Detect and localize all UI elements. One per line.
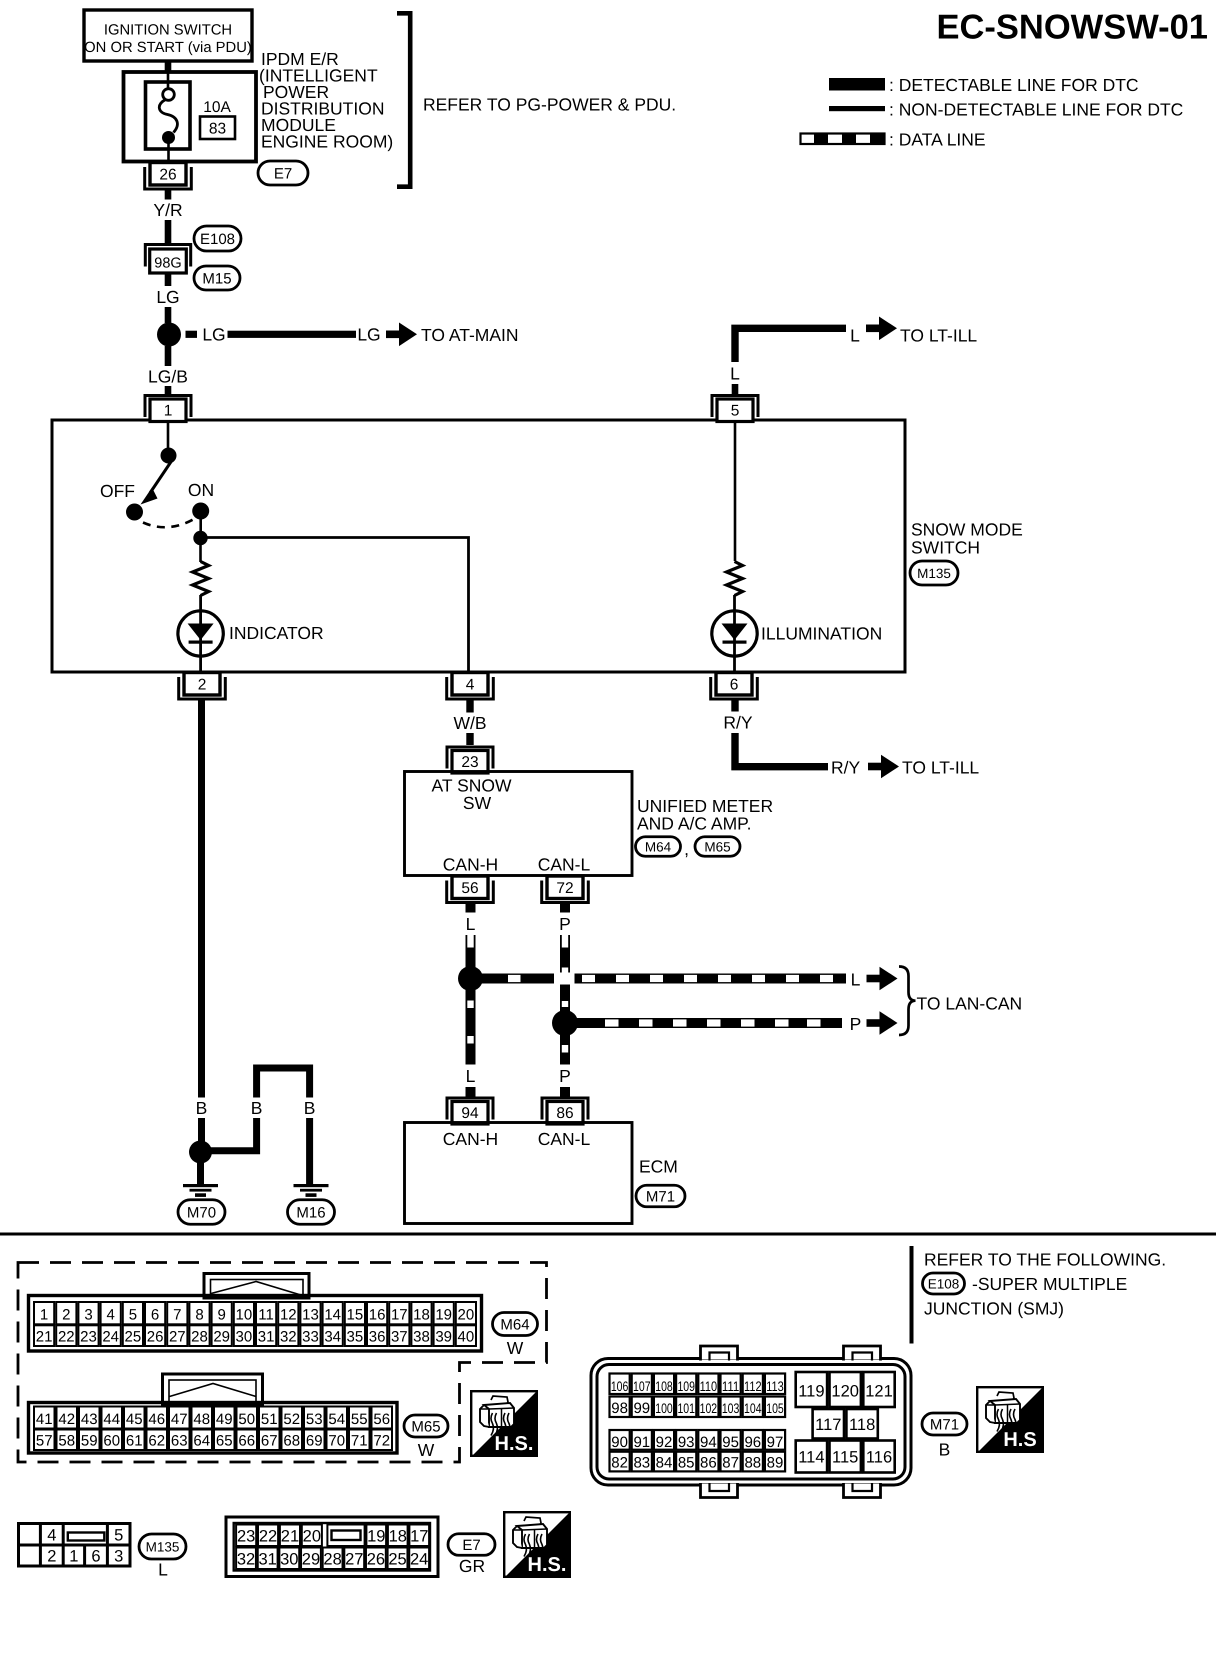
arrow L lan <box>867 967 898 991</box>
svg-text:ON OR START (via PDU): ON OR START (via PDU) <box>84 40 252 56</box>
svg-text:4: 4 <box>466 677 475 694</box>
arrow to LT-ILL bottom <box>868 755 899 779</box>
svg-text:41: 41 <box>36 1411 53 1428</box>
svg-text:21: 21 <box>36 1329 53 1346</box>
hs icon M64 M65 <box>471 1391 537 1456</box>
svg-text:98: 98 <box>611 1400 628 1417</box>
hs icon E7 <box>504 1512 570 1577</box>
junction dot B <box>189 1141 212 1164</box>
svg-text:38: 38 <box>413 1329 430 1346</box>
label AT SNOW SW <box>431 776 512 814</box>
connector pin 94 <box>447 1098 493 1124</box>
ground M16 <box>294 1184 329 1197</box>
svg-text:23: 23 <box>237 1528 255 1546</box>
svg-text:L: L <box>466 1066 476 1086</box>
svg-text:24: 24 <box>410 1551 428 1569</box>
svg-text:10A: 10A <box>203 99 231 116</box>
svg-text:R/Y: R/Y <box>723 713 753 733</box>
wire stub 56 <box>466 903 476 913</box>
svg-text:91: 91 <box>633 1434 650 1451</box>
svg-text:H.S: H.S <box>1003 1429 1036 1451</box>
svg-text:56: 56 <box>373 1411 390 1428</box>
svg-text:35: 35 <box>347 1329 364 1346</box>
svg-text:40: 40 <box>458 1329 475 1346</box>
svg-text:L: L <box>730 363 740 383</box>
svg-text:66: 66 <box>238 1433 255 1450</box>
svg-text:30: 30 <box>280 1551 298 1569</box>
svg-text:45: 45 <box>126 1411 143 1428</box>
oval E7 view <box>448 1534 495 1556</box>
svg-text:85: 85 <box>678 1455 695 1472</box>
oval M71 view <box>922 1413 967 1435</box>
connector view M71 grid right <box>796 1372 895 1473</box>
svg-text:11: 11 <box>258 1307 274 1324</box>
svg-text:83: 83 <box>633 1455 650 1472</box>
svg-text:Y/R: Y/R <box>153 200 182 220</box>
svg-text:36: 36 <box>369 1329 386 1346</box>
wire R/Y corner <box>735 733 828 767</box>
oval E108 <box>194 226 241 251</box>
svg-text:16: 16 <box>369 1307 386 1324</box>
svg-text:42: 42 <box>58 1411 75 1428</box>
svg-text:CAN-L: CAN-L <box>538 855 591 875</box>
svg-text:B: B <box>196 1098 208 1118</box>
svg-text:29: 29 <box>302 1551 320 1569</box>
data line CAN-L upper <box>560 935 570 1011</box>
svg-text:46: 46 <box>148 1411 165 1428</box>
svg-text:72: 72 <box>373 1433 390 1450</box>
svg-text:B: B <box>304 1098 316 1118</box>
svg-text:118: 118 <box>849 1416 875 1434</box>
legend detectable line sample <box>829 78 885 91</box>
svg-text:L: L <box>158 1560 168 1580</box>
connector pin 4 <box>447 673 494 700</box>
switch blade <box>141 461 172 505</box>
svg-text:CAN-H: CAN-H <box>443 855 498 875</box>
svg-text:110: 110 <box>700 1379 718 1394</box>
svg-text:H.S.: H.S. <box>495 1433 534 1455</box>
junction dot P <box>552 1010 578 1036</box>
refer bar <box>910 1246 914 1344</box>
svg-text:ON: ON <box>188 480 214 500</box>
svg-text:SWITCH: SWITCH <box>911 538 980 558</box>
svg-text:44: 44 <box>103 1411 120 1428</box>
label Y/R <box>149 200 188 221</box>
svg-text:SW: SW <box>463 793 492 813</box>
svg-text:LG: LG <box>357 325 380 345</box>
wire LG/B <box>165 346 172 395</box>
svg-text:1: 1 <box>40 1307 48 1324</box>
svg-text:115: 115 <box>832 1449 858 1467</box>
svg-text:31: 31 <box>258 1551 276 1569</box>
label B loop-right <box>301 1098 318 1119</box>
wire L stub <box>732 384 739 395</box>
svg-text:P: P <box>559 914 571 934</box>
svg-text:18: 18 <box>413 1307 430 1324</box>
arrow to LT-ILL top <box>866 317 897 341</box>
svg-text:,: , <box>684 839 689 859</box>
connector view E7 <box>226 1517 438 1577</box>
svg-text:M16: M16 <box>296 1204 325 1221</box>
svg-text:55: 55 <box>351 1411 368 1428</box>
wire resistor to LED <box>199 595 202 671</box>
svg-text:CAN-L: CAN-L <box>538 1129 591 1149</box>
unified meter box <box>405 772 633 876</box>
svg-text:63: 63 <box>171 1433 188 1450</box>
connector pin 86 <box>542 1098 588 1124</box>
svg-text:108: 108 <box>655 1379 673 1394</box>
wire B branch <box>210 1118 257 1151</box>
svg-text:LG: LG <box>202 325 225 345</box>
svg-text:69: 69 <box>306 1433 323 1450</box>
svg-text:M65: M65 <box>704 839 730 854</box>
svg-text:IGNITION SWITCH: IGNITION SWITCH <box>104 23 232 39</box>
wire W/B <box>466 700 473 746</box>
wire B to M16 ground <box>306 1118 313 1185</box>
oval M64 <box>636 837 681 857</box>
svg-text:18: 18 <box>389 1528 407 1546</box>
svg-text:58: 58 <box>58 1433 75 1450</box>
svg-text:B: B <box>251 1098 263 1118</box>
svg-text:97: 97 <box>767 1434 784 1451</box>
svg-text:34: 34 <box>324 1329 341 1346</box>
svg-text:59: 59 <box>81 1433 98 1450</box>
svg-text:72: 72 <box>556 880 573 897</box>
wire stub 86 <box>560 1087 570 1098</box>
svg-text:25: 25 <box>125 1329 142 1346</box>
svg-text:43: 43 <box>81 1411 98 1428</box>
connector pin 5 <box>712 396 758 422</box>
arrow to AT-MAIN <box>386 323 417 347</box>
ignition switch box <box>84 10 252 61</box>
svg-text:104: 104 <box>744 1401 762 1416</box>
svg-text:6: 6 <box>730 677 739 694</box>
connector view M71 body <box>591 1359 911 1486</box>
label R/Y <box>719 712 758 734</box>
svg-text:24: 24 <box>102 1329 119 1346</box>
wire ON to node <box>199 511 202 533</box>
svg-text:30: 30 <box>236 1329 253 1346</box>
svg-text:6: 6 <box>91 1548 100 1566</box>
svg-text:: DATA LINE: : DATA LINE <box>889 130 986 150</box>
connector view M71 grid lower-left <box>610 1430 786 1472</box>
svg-text:M64: M64 <box>500 1316 529 1333</box>
arrow P lan <box>867 1011 898 1035</box>
svg-text:61: 61 <box>126 1433 143 1450</box>
wire stub 94 <box>466 1087 476 1098</box>
svg-text:121: 121 <box>865 1383 893 1401</box>
connector view M65 body <box>29 1403 398 1454</box>
svg-text:E7: E7 <box>274 165 292 182</box>
connector view M71 tabs <box>700 1346 881 1498</box>
svg-text:86: 86 <box>556 1105 573 1122</box>
svg-text:39: 39 <box>435 1329 452 1346</box>
dashed group box M64 M65 <box>18 1263 547 1463</box>
svg-text:117: 117 <box>815 1416 841 1434</box>
svg-text:7: 7 <box>173 1307 181 1324</box>
svg-text:22: 22 <box>58 1329 75 1346</box>
oval M135 view <box>139 1534 186 1559</box>
svg-text:P: P <box>850 1014 862 1034</box>
connector view M65 tab <box>163 1374 263 1404</box>
svg-text:92: 92 <box>656 1434 673 1451</box>
svg-text:51: 51 <box>261 1411 278 1428</box>
svg-text:M15: M15 <box>202 270 231 287</box>
svg-text:L: L <box>466 914 476 934</box>
svg-text:26: 26 <box>367 1551 385 1569</box>
svg-text:17: 17 <box>410 1528 428 1546</box>
svg-text:AND A/C AMP.: AND A/C AMP. <box>637 814 751 834</box>
svg-text:103: 103 <box>722 1401 740 1416</box>
wire B loop <box>257 1068 310 1098</box>
svg-text:70: 70 <box>328 1433 345 1450</box>
svg-text:28: 28 <box>323 1551 341 1569</box>
svg-text:P: P <box>559 1066 571 1086</box>
svg-text:E108: E108 <box>928 1276 960 1291</box>
node dot <box>193 531 207 545</box>
svg-text:TO LT-ILL: TO LT-ILL <box>902 758 979 778</box>
label B main <box>193 1098 210 1119</box>
connector view M64 body <box>29 1296 482 1352</box>
resistor illumination <box>727 562 743 596</box>
svg-text:109: 109 <box>677 1379 695 1394</box>
svg-text:26: 26 <box>159 167 176 184</box>
svg-text:REFER TO THE FOLLOWING.: REFER TO THE FOLLOWING. <box>924 1250 1166 1270</box>
wire dot to ground <box>197 1160 204 1184</box>
svg-text:2: 2 <box>62 1307 70 1324</box>
wire stub 72 <box>560 903 570 913</box>
data line CAN-H lower <box>466 989 476 1065</box>
svg-text:LG: LG <box>156 287 179 307</box>
label W/B <box>451 713 490 734</box>
oval M64 view <box>493 1313 538 1336</box>
resistor indicator <box>193 562 209 596</box>
svg-text:47: 47 <box>171 1411 188 1428</box>
svg-text:M135: M135 <box>917 566 951 581</box>
svg-text:71: 71 <box>351 1433 368 1450</box>
svg-text:28: 28 <box>191 1329 208 1346</box>
connector pin 23 <box>447 747 493 773</box>
svg-text:19: 19 <box>435 1307 452 1324</box>
svg-text:87: 87 <box>722 1455 739 1472</box>
svg-text:3: 3 <box>84 1307 92 1324</box>
connector E7 oval <box>258 161 308 185</box>
svg-text:8: 8 <box>195 1307 203 1324</box>
svg-text:B: B <box>939 1440 951 1460</box>
svg-text:M71: M71 <box>646 1188 675 1205</box>
svg-text:2: 2 <box>47 1548 56 1566</box>
svg-text:GR: GR <box>459 1556 485 1576</box>
svg-text:10: 10 <box>236 1307 253 1324</box>
svg-text:111: 111 <box>722 1379 740 1394</box>
svg-text:OFF: OFF <box>100 481 135 501</box>
svg-text:6: 6 <box>151 1307 159 1324</box>
wire R/Y pin6 <box>731 700 738 712</box>
bracket refer pg-power <box>397 13 410 186</box>
connector pin 6 <box>711 673 758 700</box>
switch OFF dot <box>126 504 143 521</box>
svg-text:5: 5 <box>129 1307 137 1324</box>
svg-text:23: 23 <box>461 754 478 771</box>
brace to lan-can <box>899 967 916 1036</box>
LED illumination <box>712 611 757 656</box>
connector 98G SMJ <box>145 245 190 274</box>
svg-text:106: 106 <box>611 1379 629 1394</box>
svg-text:67: 67 <box>261 1433 278 1450</box>
separator line <box>0 1233 1216 1236</box>
LG branch dash <box>186 331 198 338</box>
svg-text:105: 105 <box>766 1401 784 1416</box>
wire node down <box>199 538 202 562</box>
svg-text:22: 22 <box>259 1528 277 1546</box>
svg-text:95: 95 <box>722 1434 739 1451</box>
svg-text:93: 93 <box>678 1434 695 1451</box>
svg-text:29: 29 <box>213 1329 230 1346</box>
switch common dot <box>161 448 177 464</box>
svg-text:W: W <box>507 1338 524 1358</box>
svg-text:H.S.: H.S. <box>528 1554 567 1576</box>
svg-text:26: 26 <box>147 1329 164 1346</box>
svg-text:32: 32 <box>237 1551 255 1569</box>
svg-text:: NON-DETECTABLE LINE FOR DTC: : NON-DETECTABLE LINE FOR DTC <box>889 100 1183 120</box>
svg-text:2: 2 <box>198 677 207 694</box>
svg-text:M64: M64 <box>645 839 672 854</box>
svg-text:M70: M70 <box>187 1204 216 1221</box>
svg-text:TO AT-MAIN: TO AT-MAIN <box>421 325 519 345</box>
svg-text:114: 114 <box>798 1449 824 1467</box>
fuse 10A 83 <box>146 82 236 161</box>
svg-text:W/B: W/B <box>453 713 486 733</box>
svg-text:25: 25 <box>388 1551 406 1569</box>
svg-text:99: 99 <box>633 1400 650 1417</box>
svg-text:12: 12 <box>280 1307 297 1324</box>
IPDM label text <box>259 49 393 152</box>
oval E108 refer <box>923 1273 965 1294</box>
svg-text:TO LAN-CAN: TO LAN-CAN <box>917 994 1023 1014</box>
svg-text:50: 50 <box>238 1411 255 1428</box>
wire pin1 to switch <box>167 421 170 449</box>
wire pin5 down <box>734 421 737 561</box>
connector view M64 cells <box>34 1302 476 1346</box>
svg-text:102: 102 <box>700 1401 718 1416</box>
connector view M71 grid upper-left <box>610 1374 786 1418</box>
connector pin 1 <box>145 396 191 422</box>
svg-text:5: 5 <box>114 1527 123 1545</box>
svg-text:94: 94 <box>700 1434 717 1451</box>
svg-text:L: L <box>850 326 860 346</box>
svg-text:101: 101 <box>677 1401 695 1416</box>
svg-text:90: 90 <box>611 1434 628 1451</box>
oval M71 <box>636 1185 685 1207</box>
svg-text:JUNCTION (SMJ): JUNCTION (SMJ) <box>924 1299 1064 1319</box>
svg-text:32: 32 <box>280 1329 297 1346</box>
svg-text:E108: E108 <box>200 231 235 248</box>
svg-text:21: 21 <box>281 1528 299 1546</box>
svg-text:9: 9 <box>218 1307 226 1324</box>
connector view M64 tab <box>204 1274 309 1299</box>
svg-text:120: 120 <box>831 1383 859 1401</box>
connector view M135 <box>19 1524 131 1567</box>
svg-text:119: 119 <box>798 1383 824 1401</box>
switch ON dot <box>192 503 209 520</box>
data line CAN-L lower <box>560 1034 570 1065</box>
svg-text:ILLUMINATION: ILLUMINATION <box>761 624 882 644</box>
connector pin 72 <box>542 876 589 903</box>
svg-text:20: 20 <box>458 1307 475 1324</box>
svg-text:TO LT-ILL: TO LT-ILL <box>900 326 977 346</box>
svg-text:89: 89 <box>767 1455 784 1472</box>
svg-text:4: 4 <box>107 1307 115 1324</box>
oval M65 view <box>404 1415 448 1437</box>
svg-text:88: 88 <box>744 1455 761 1472</box>
svg-text:84: 84 <box>656 1455 673 1472</box>
wire into fuse <box>167 72 170 89</box>
svg-text:17: 17 <box>391 1307 408 1324</box>
LED indicator <box>178 611 223 656</box>
svg-text:20: 20 <box>303 1528 321 1546</box>
wire LG to AT-MAIN <box>228 331 357 338</box>
IPDM E/R box <box>124 72 257 162</box>
svg-text:M71: M71 <box>930 1416 959 1433</box>
svg-text:113: 113 <box>766 1379 784 1394</box>
svg-text:112: 112 <box>744 1379 762 1394</box>
svg-text:94: 94 <box>461 1105 479 1122</box>
svg-text:57: 57 <box>36 1433 53 1450</box>
svg-text:37: 37 <box>391 1329 408 1346</box>
svg-text:60: 60 <box>103 1433 120 1450</box>
wire resistor to LED 2 <box>733 595 736 671</box>
wire ignition to IPDM <box>165 61 172 73</box>
svg-text:SNOW MODE: SNOW MODE <box>911 520 1023 540</box>
svg-text:5: 5 <box>731 403 740 420</box>
svg-text:64: 64 <box>193 1433 210 1450</box>
label SNOW MODE SWITCH <box>911 520 1023 558</box>
hs icon M71 <box>977 1387 1043 1452</box>
connector view M65 cells <box>34 1407 392 1451</box>
ground M70 <box>183 1184 218 1197</box>
svg-text:68: 68 <box>283 1433 300 1450</box>
svg-text:83: 83 <box>209 121 226 138</box>
svg-text:56: 56 <box>461 880 478 897</box>
svg-text:31: 31 <box>258 1329 275 1346</box>
svg-text:ECM: ECM <box>639 1157 678 1177</box>
svg-text:107: 107 <box>633 1379 651 1394</box>
svg-text:86: 86 <box>700 1455 717 1472</box>
oval M16 <box>288 1200 335 1225</box>
svg-text:M65: M65 <box>411 1418 440 1435</box>
svg-text:CAN-H: CAN-H <box>443 1129 498 1149</box>
wire B main <box>198 700 205 1143</box>
svg-text:1: 1 <box>69 1548 78 1566</box>
svg-text:: DETECTABLE LINE FOR DTC: : DETECTABLE LINE FOR DTC <box>889 75 1139 95</box>
label LG <box>154 286 182 307</box>
oval M65 <box>695 837 740 857</box>
svg-text:96: 96 <box>744 1434 761 1451</box>
wire Y/R <box>165 190 172 244</box>
svg-text:14: 14 <box>324 1307 341 1324</box>
connector pin 56 <box>447 876 494 903</box>
svg-text:116: 116 <box>866 1449 892 1467</box>
junction dot LG <box>157 323 181 347</box>
connector pin 2 <box>179 673 226 700</box>
junction dot L <box>458 966 483 991</box>
label L top <box>727 362 744 384</box>
svg-text:23: 23 <box>80 1329 97 1346</box>
svg-text:27: 27 <box>345 1551 363 1569</box>
switch dashed arc <box>143 519 194 527</box>
svg-text:REFER TO PG-POWER & PDU.: REFER TO PG-POWER & PDU. <box>423 95 676 115</box>
ECM box <box>405 1123 633 1224</box>
